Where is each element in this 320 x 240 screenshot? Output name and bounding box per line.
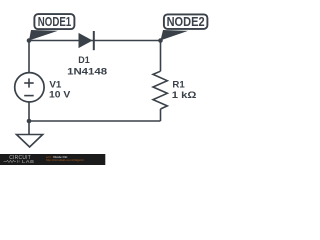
svg-text:R1: R1 <box>172 79 184 89</box>
svg-text:1N4148: 1N4148 <box>67 67 107 77</box>
svg-text:NODE2: NODE2 <box>167 15 205 29</box>
svg-text:1 kΩ: 1 kΩ <box>172 90 197 100</box>
svg-text:http://circuitlab.com/c6kjpnbr: http://circuitlab.com/c6kjpnbr <box>46 158 84 162</box>
svg-text:10 V: 10 V <box>49 90 71 100</box>
svg-text:NODE1: NODE1 <box>38 15 71 29</box>
svg-text:D1: D1 <box>78 55 89 65</box>
svg-text:LAB: LAB <box>22 159 35 164</box>
svg-text:V1: V1 <box>49 79 61 89</box>
